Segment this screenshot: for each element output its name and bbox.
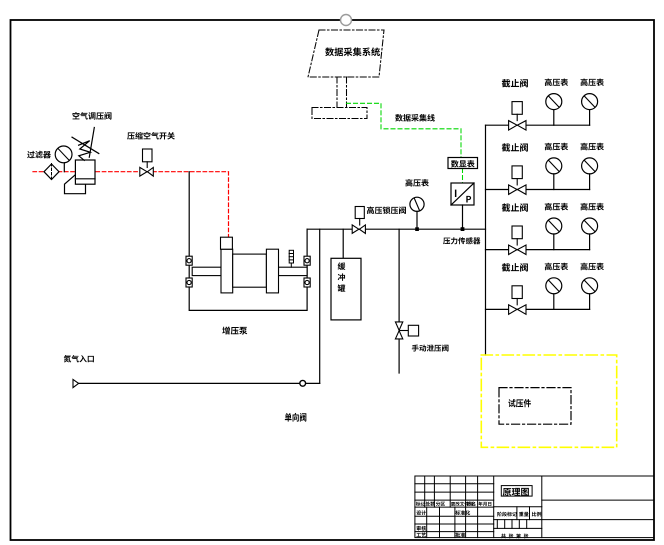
check valve (ball) 单向阀 xyxy=(300,380,306,386)
label: 高压表 xyxy=(581,78,604,86)
label: 单向阀 xyxy=(285,413,306,422)
pressure transducer U1 (I/P) xyxy=(451,183,474,205)
label: 增压泵 xyxy=(222,327,247,335)
pressure gauge branch 1B 高压表 xyxy=(582,94,598,126)
title block grid xyxy=(415,476,654,538)
label: 高压表 xyxy=(545,143,568,151)
wire: compressed air line (red dashed) xyxy=(33,172,229,237)
pressure gauge branch 2B 高压表 xyxy=(582,158,598,190)
valve: branch 4 stop valve 截止阀 xyxy=(509,286,526,315)
buffer tank 缓冲罐 xyxy=(331,258,361,320)
label: 高压表 xyxy=(545,203,568,211)
nitrogen inlet arrow xyxy=(73,379,79,387)
pressure gauge branch 2A 高压表 xyxy=(546,158,562,190)
label: 高压表 xyxy=(581,203,604,211)
digital display meter box 数显表 xyxy=(448,158,478,169)
label: 高压锁压阀 xyxy=(367,206,406,214)
data acquisition system monitor (dash-dot parallelogram) xyxy=(308,30,384,119)
label: 压力传感器 xyxy=(443,237,480,244)
wire: nitrogen inlet line xyxy=(79,229,320,383)
label: 过滤器 xyxy=(27,151,51,159)
wire: branch 2 line xyxy=(486,189,590,191)
valve: branch 3 stop valve 截止阀 xyxy=(509,226,526,255)
test piece 试压件 (dash-dot box) xyxy=(499,388,571,425)
wire: branch 4 line xyxy=(486,308,590,310)
label: 高压表 xyxy=(545,263,568,271)
valve V2: 高压锁压阀 xyxy=(352,207,365,234)
valve V3: 手动泄压阀 xyxy=(395,322,418,339)
pump bearing mount xyxy=(186,278,192,287)
label: 截止阀 branch 4 xyxy=(502,263,528,271)
grip circle on top border xyxy=(341,15,352,26)
wire: branch 3 line xyxy=(486,249,590,251)
label: 氮气入口 xyxy=(64,355,94,362)
valve: branch 1 stop valve 截止阀 xyxy=(509,102,526,131)
wire: buffer tank feed xyxy=(342,229,344,258)
label: 手动泄压阀 xyxy=(412,345,449,352)
label: 压缩空气开关 xyxy=(127,132,175,140)
label: 试压件 xyxy=(508,399,531,407)
label: 原理图 xyxy=(503,488,529,496)
label: 数据采集系统 xyxy=(325,47,380,56)
wire: air feed down to pump and bottom loop xyxy=(189,172,307,311)
pressure gauge branch 1A 高压表 xyxy=(546,94,562,126)
label: 截止阀 branch 2 xyxy=(502,143,528,151)
valve: branch 2 stop valve 截止阀 xyxy=(509,166,526,195)
wire: main high-pressure line xyxy=(307,228,485,230)
pressure gauge branch 4B 高压表 xyxy=(582,278,598,310)
booster pump 增压泵 xyxy=(192,237,307,293)
pressure gauge branch 3A 高压表 xyxy=(546,218,562,250)
filter (diamond) xyxy=(44,164,59,180)
pump greaser fitting xyxy=(289,250,293,267)
wire: branch 1 line xyxy=(486,124,590,126)
label: 截止阀 branch 3 xyxy=(502,203,528,211)
label: 截止阀 branch 1 xyxy=(502,79,528,87)
pump bearing mount xyxy=(304,278,310,287)
test area (yellow dash-dot box) xyxy=(481,355,616,447)
label: 高压表 xyxy=(581,263,604,271)
air pressure regulator 空气调压阀 xyxy=(65,128,99,194)
junction dot at gauge stem xyxy=(415,227,419,231)
label: 高压表 xyxy=(545,78,568,86)
wire: relief branch xyxy=(398,229,400,373)
label: 空气调压阀 xyxy=(72,112,111,120)
pressure gauge branch 4A 高压表 xyxy=(546,278,562,310)
pump bearing mount xyxy=(186,256,192,265)
valve V1: compressed air switch xyxy=(140,149,154,176)
wire: data acquisition line (green dashed) xyxy=(347,103,463,183)
label: 高压表 xyxy=(581,143,604,151)
label: 高压表 xyxy=(405,179,428,187)
pump bearing mount xyxy=(304,256,310,265)
junction dot at transducer stem xyxy=(461,227,465,231)
pressure gauge G1 高压表 xyxy=(410,197,424,229)
wire: manifold xyxy=(485,125,487,355)
title block texts xyxy=(416,502,425,507)
label: 数据采集线 xyxy=(395,114,435,122)
pressure gauge branch 3B 高压表 xyxy=(582,218,598,250)
wire: transducer stem xyxy=(462,205,464,229)
pressure gauge G0 xyxy=(55,146,72,172)
